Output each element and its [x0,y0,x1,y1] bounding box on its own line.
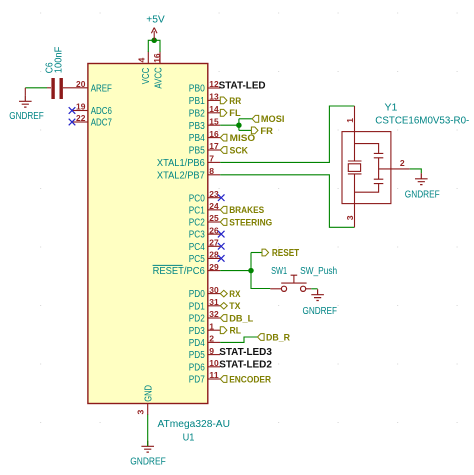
svg-text:3: 3 [136,410,146,415]
svg-text:14: 14 [209,104,219,114]
svg-text:SW_Push: SW_Push [300,266,337,277]
pin 29 RESET/PC6 [208,270,220,272]
svg-text:PD2: PD2 [189,314,205,325]
hier label STEERING [220,219,227,226]
svg-text:ADC6: ADC6 [91,106,113,117]
hier label MOSI [252,115,259,122]
svg-text:PD7: PD7 [189,375,205,386]
svg-text:23: 23 [209,189,219,199]
svg-text:PD3: PD3 [189,326,205,337]
resonator pin 1 [354,106,356,132]
wire PD4 to DB_R [220,337,257,342]
svg-text:PC0: PC0 [189,193,205,204]
svg-text:2: 2 [209,334,214,344]
svg-text:PD0: PD0 [189,289,205,300]
svg-text:29: 29 [209,262,219,272]
hier label FR [251,127,258,134]
svg-text:Y1: Y1 [385,103,398,114]
svg-text:GNDREF: GNDREF [9,111,44,122]
pin 16 PB4 [208,137,220,139]
svg-text:RR: RR [229,96,241,107]
hier label ENCODER [220,376,227,383]
svg-text:DB_R: DB_R [266,332,290,343]
svg-text:22: 22 [76,113,86,123]
svg-text:16: 16 [152,53,162,63]
hier label RX [220,290,227,297]
pin 8 XTAL2/PB7 [208,174,220,176]
pin 23 PC0 [208,197,220,199]
pin 26 PC3 [208,233,220,235]
svg-text:U1: U1 [183,432,195,443]
svg-text:PB5: PB5 [189,146,205,157]
svg-text:11: 11 [209,370,219,380]
pin 15 PB3 [208,124,220,126]
svg-text:PD6: PD6 [189,362,205,373]
pin 17 PB5 [208,149,220,151]
pin 7 XTAL1/PB6 [208,161,220,163]
no-connect PC0 [218,194,225,201]
wire XTAL1 to resonator pin1 [220,106,354,162]
svg-text:12: 12 [209,79,219,89]
svg-text:PC3: PC3 [189,230,205,241]
svg-text:26: 26 [209,225,219,235]
pin 30 PD0 [208,293,220,295]
ground GNDREF at C6 [24,88,26,96]
ground GNDREF at resonator [415,173,428,184]
pin 31 PD1 [208,305,220,307]
pin 25 PC2 [208,221,220,223]
wire pin2 to ground [410,169,422,173]
hier label DB_R [258,334,265,341]
svg-text:PD1: PD1 [189,301,205,312]
svg-text:15: 15 [209,116,219,126]
svg-text:PB3: PB3 [189,121,205,132]
svg-text:CSTCE16M0V53-R0-: CSTCE16M0V53-R0- [375,115,469,126]
switch SW1 SW_Push [270,288,281,290]
svg-text:RL: RL [230,326,242,337]
svg-text:13: 13 [209,92,219,102]
ground GNDREF at SW1 [311,289,324,300]
svg-text:TX: TX [229,301,241,312]
hier label DB_L [220,315,227,322]
svg-text:8: 8 [209,166,214,176]
pin 1 PD3 [208,329,220,331]
pin 32 PD2 [208,317,220,319]
svg-text:STAT-LED3: STAT-LED3 [219,346,272,358]
svg-text:30: 30 [209,285,219,295]
pin 2 PD4 [208,341,220,343]
hier label RESET [262,249,269,256]
svg-text:1: 1 [209,321,214,331]
svg-text:16: 16 [209,129,219,139]
svg-text:32: 32 [209,309,219,319]
svg-text:MOSI: MOSI [261,114,285,125]
no-connect PC4 [218,243,225,250]
power symbol +5V [151,28,157,41]
no-connect ADC7 [69,119,76,126]
svg-text:3: 3 [345,215,355,220]
svg-text:SCK: SCK [230,145,249,156]
pin 16 AVCC [159,52,161,64]
pin 3 GND [147,404,149,416]
wire GND to C6 [25,87,47,89]
pin 22 ADC7 [73,121,88,123]
svg-text:XTAL2/PB7: XTAL2/PB7 [157,170,205,181]
hier label SCK [220,147,227,154]
svg-text:STEERING: STEERING [229,217,272,228]
svg-text:GNDREF: GNDREF [130,457,166,468]
wire RESET/PC6 net [220,270,251,272]
svg-text:17: 17 [209,141,219,151]
svg-text:PC4: PC4 [189,242,205,253]
no-connect ADC6 [69,107,76,114]
svg-text:PB4: PB4 [189,133,205,144]
svg-text:25: 25 [209,213,219,223]
pin 4 VCC [147,52,149,64]
svg-text:10: 10 [209,358,219,368]
pin 28 PC5 [208,257,220,259]
svg-text:PC1: PC1 [189,205,205,216]
junction PB3 [236,122,242,128]
wire PB3 to MOSI/FR junction [220,124,239,126]
pin 11 PD7 [208,378,220,380]
svg-text:20: 20 [76,79,86,89]
wire GND pin to ground [147,415,149,447]
svg-text:31: 31 [209,297,219,307]
ground GNDREF below IC [141,441,154,452]
svg-text:GNDREF: GNDREF [303,306,338,317]
no-connect PC5 [218,255,225,262]
svg-text:PD4: PD4 [189,338,205,349]
resonator pin 3 [354,204,356,228]
svg-text:PB1: PB1 [189,96,205,107]
svg-text:ADC7: ADC7 [91,118,113,129]
svg-text:PB0: PB0 [189,84,205,95]
svg-text:28: 28 [209,250,219,260]
svg-text:STAT-LED2: STAT-LED2 [219,358,272,370]
svg-text:XTAL1/PB6: XTAL1/PB6 [157,158,205,169]
pin 14 PB2 [208,112,220,114]
hier label BRAKES [220,206,227,213]
svg-text:7: 7 [209,154,214,164]
svg-text:VCC: VCC [141,68,152,85]
svg-text:GNDREF: GNDREF [405,190,440,201]
pin 19 ADC6 [73,110,88,112]
hier label RL [220,327,227,334]
svg-text:19: 19 [76,102,86,112]
resonator pin 2 [391,168,410,170]
pin 27 PC4 [208,245,220,247]
hier label TX [220,303,227,310]
pin 12 PB0 [208,87,220,89]
pin 13 PB1 [208,99,220,101]
svg-text:PB2: PB2 [189,108,205,119]
svg-text:2: 2 [400,158,405,168]
resonator Y1 outline [342,132,391,204]
svg-text:PD5: PD5 [189,350,205,361]
svg-text:STAT-LED: STAT-LED [219,80,266,92]
svg-text:DB_L: DB_L [229,313,253,324]
svg-text:ATmega328-AU: ATmega328-AU [158,419,231,430]
svg-text:ENCODER: ENCODER [229,374,271,385]
svg-text:RESET: RESET [272,247,300,259]
pin 20 AREF [63,87,88,89]
hier label FL [220,109,227,116]
no-connect PC3 [218,231,225,238]
svg-text:BRAKES: BRAKES [229,205,264,216]
junction RESET node [248,268,254,274]
hier label RR [220,97,227,104]
svg-text:27: 27 [209,238,219,248]
svg-text:RESET/PC6: RESET/PC6 [153,266,206,277]
svg-text:SW1: SW1 [271,266,287,277]
svg-text:FL: FL [229,108,240,119]
IC U1 ATmega328-AU body [88,64,208,404]
pin 9 PD5 [208,354,220,356]
svg-text:1: 1 [345,118,355,123]
load capacitors inside resonator [355,144,391,193]
svg-text:FR: FR [260,126,273,137]
hier label MISO [220,134,227,141]
svg-text:GND: GND [143,385,154,402]
svg-text:AVCC: AVCC [154,67,165,88]
crystal element [348,132,362,204]
pin 10 PD6 [208,366,220,368]
pin 24 PC1 [208,209,220,211]
capacitor C6 [47,87,51,89]
wire VCC/AVCC to +5V [148,40,160,52]
svg-text:24: 24 [209,201,219,211]
svg-text:4: 4 [136,58,146,63]
junction +5V node [151,38,157,44]
svg-text:AREF: AREF [91,83,112,94]
wire XTAL2 to resonator pin3 [220,175,354,228]
svg-text:PC5: PC5 [189,254,205,265]
svg-text:RX: RX [229,289,241,300]
svg-text:+5V: +5V [146,15,165,26]
svg-text:9: 9 [209,346,214,356]
svg-text:MISO: MISO [230,133,256,144]
svg-text:PC2: PC2 [189,218,205,229]
svg-text:100nF: 100nF [53,47,64,74]
